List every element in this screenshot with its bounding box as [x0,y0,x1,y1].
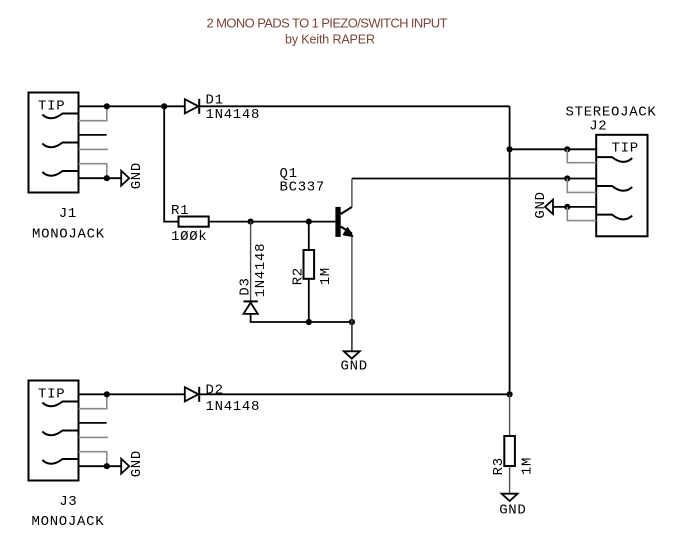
node junction base-D3 [248,219,254,225]
node junction bus-J2tip [507,146,513,152]
svg-text:STEREOJACK: STEREOJACK [566,104,657,120]
diode D1 [185,99,199,114]
J1 pin 2 grey link [79,108,107,121]
ground symbol J1 [121,171,129,186]
node junction J2 sleeve [564,204,570,210]
node junction emitter bottom [349,319,355,325]
J2 sleeve grey link [567,207,596,221]
wire J3 tip to D2 [79,393,185,395]
node junction bus-D2 [507,391,513,397]
svg-text:GND: GND [129,450,145,477]
svg-text:GND: GND [129,162,145,189]
diode D3 [244,301,258,314]
svg-text:TIP: TIP [612,140,639,156]
wire Q1 emitter drop [351,236,353,322]
wire right vertical bus [509,106,511,394]
connector J3 body [29,381,79,481]
connector J1 body [29,93,79,193]
node junction J2 ring [564,175,570,181]
wire D3 to bottom rail [251,314,352,322]
node junction R2 bottom [306,319,312,325]
J3 pin 5 grey link [79,452,107,465]
wire R2 top stub [308,222,310,250]
wire J2 sleeve to ground [553,206,596,208]
J3 pin 4 grey stub [79,436,109,438]
svg-text:GND: GND [499,503,526,519]
ground symbol J2 [545,200,553,214]
J1 pin 4 grey stub [79,148,109,150]
svg-text:J2: J2 [589,118,607,134]
wire emitter to ground [351,322,353,351]
node junction D1-R1 [161,103,167,109]
J1 pin 3 stub [79,134,107,136]
svg-text:R2: R2 [291,267,307,285]
node junction J1 tip [104,103,110,109]
wire D3 anode drop [250,222,252,301]
svg-text:J1: J1 [59,206,77,222]
svg-text:GND: GND [341,359,368,375]
J3 pin 2 grey link [79,396,107,409]
ground symbol R3 [502,494,518,501]
svg-text:TIP: TIP [38,99,65,115]
wire collector to J2 [352,178,596,180]
svg-text:1N4148: 1N4148 [253,243,269,298]
connector J2 body [596,135,647,237]
resistor R2 [304,250,315,279]
wire D1 to right corner [199,105,509,107]
svg-text:TIP: TIP [38,387,65,403]
svg-text:R1: R1 [171,203,189,219]
svg-text:MONOJACK: MONOJACK [32,514,105,530]
svg-text:1N4148: 1N4148 [206,399,261,415]
svg-text:R3: R3 [491,457,507,475]
resistor R1 [179,217,209,227]
transistor Q1 [335,207,352,237]
wire Q1 collector riser [351,179,353,208]
svg-text:GND: GND [533,191,549,218]
node junction J1 gnd [104,175,110,181]
wire R1 to Q1 base [209,221,336,223]
wire bus to J2 tip [510,148,597,150]
wire D2 to bus [199,393,509,395]
node junction J3 tip [104,391,110,397]
svg-text:D2: D2 [206,382,224,398]
svg-text:1ØØk: 1ØØk [171,229,207,245]
node junction base-R2 [306,219,312,225]
svg-text:1N4148: 1N4148 [206,107,261,123]
svg-text:2 MONO PADS TO 1 PIEZO/SWITCH: 2 MONO PADS TO 1 PIEZO/SWITCH INPUT [207,16,448,31]
node junction J3 gnd [104,463,110,469]
svg-text:by Keith RAPER: by Keith RAPER [285,33,375,47]
svg-text:J3: J3 [59,494,77,510]
wire D1 junction down to R1 [164,106,178,221]
J3 pin 3 stub [79,422,107,424]
wire R3 to ground [509,466,511,494]
node junction J2 tip [564,146,570,152]
J2 ring grey link [567,179,596,193]
J1 ground pin wire [79,177,122,179]
svg-text:D3: D3 [237,277,253,295]
svg-text:MONOJACK: MONOJACK [32,226,105,242]
ground symbol emitter [344,351,360,358]
J2 tip grey link [567,149,596,162]
wire R2 bottom stub [308,279,310,322]
J1 pin 5 grey link [79,164,107,177]
wire R3 top stub [509,394,511,436]
svg-text:1M: 1M [318,267,334,285]
ground symbol J3 [121,459,129,474]
svg-text:1M: 1M [520,457,536,475]
wire J1 tip to D1 [79,105,185,107]
svg-text:BC337: BC337 [280,179,326,195]
diode D2 [185,387,199,402]
J3 ground pin wire [79,465,122,467]
resistor R3 [504,436,515,466]
